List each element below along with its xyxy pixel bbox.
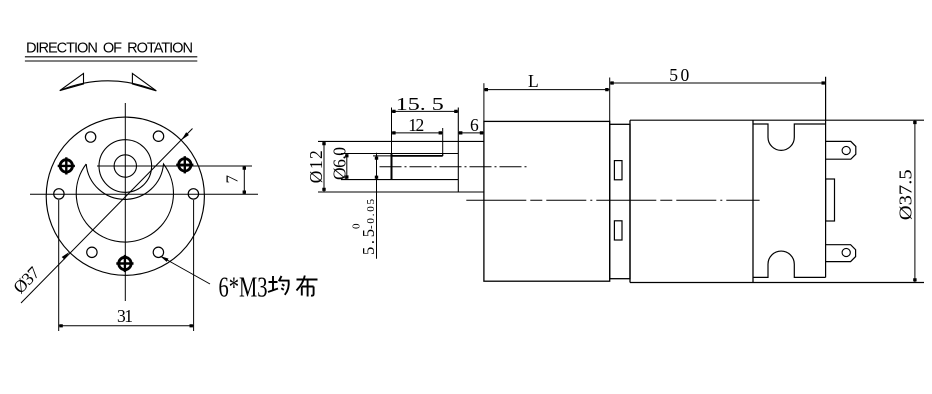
dim dia12 line xyxy=(323,141,325,192)
svg-text:-0.05: -0.05 xyxy=(365,199,377,230)
dim 5.5 text with tolerance xyxy=(351,199,379,256)
terminal tab lower xyxy=(826,245,856,262)
dim dia37.5 line xyxy=(914,120,916,282)
gearbox face extension up xyxy=(483,83,485,121)
dim L line xyxy=(484,89,609,91)
gearbox body xyxy=(484,121,610,281)
shaft horizontal centerline xyxy=(97,165,252,167)
dim 15.5 text xyxy=(396,94,444,114)
dia37 arrow upper xyxy=(181,132,189,140)
label bu (CJK) xyxy=(297,276,318,297)
terminal hole upper xyxy=(842,146,850,154)
shaft bottom edge with extension xyxy=(341,179,458,181)
shaft axis centerline xyxy=(380,166,529,168)
dim 6 text xyxy=(470,115,479,135)
dim 6 arrows xyxy=(459,131,483,134)
dim 31 line xyxy=(59,325,194,327)
terminal hole lower xyxy=(842,248,850,256)
dim L arrows xyxy=(485,88,609,91)
dim 12 extension right xyxy=(442,128,444,156)
svg-text:5.5: 5.5 xyxy=(359,229,378,255)
dim 50 line xyxy=(610,82,826,84)
svg-text:31: 31 xyxy=(117,306,133,326)
hole M3 mid-left xyxy=(54,189,64,199)
vertical centerline xyxy=(124,103,126,301)
shaft boss circle xyxy=(99,140,152,193)
svg-text:Ø37.5: Ø37.5 xyxy=(896,169,916,220)
dim dia12 arrows xyxy=(322,142,325,191)
dia37 leader line xyxy=(21,129,193,304)
shaft tip edge xyxy=(391,154,393,180)
end bell top edge with notch xyxy=(753,124,826,150)
screw cross hole bottom xyxy=(116,255,133,272)
hole M3 top-left xyxy=(85,132,95,142)
dim 5.5 arrows xyxy=(375,157,378,179)
dim 15.5 extension left xyxy=(391,108,393,154)
dim dia37.5 arrows xyxy=(913,121,916,282)
shaft top edge with extension xyxy=(341,153,458,155)
dim dia6.0 text xyxy=(329,147,349,180)
dim 15.5 line xyxy=(392,110,459,112)
motor can front edge xyxy=(629,120,631,282)
dim L text xyxy=(528,71,539,91)
dim 6 line xyxy=(458,132,484,134)
dia37 arrow lower xyxy=(62,252,70,260)
screw cross hole left xyxy=(58,157,75,174)
dim 15.5 arrows xyxy=(392,110,457,113)
svg-text:7: 7 xyxy=(223,175,242,184)
label 6*M3 xyxy=(219,272,268,304)
terminal tab upper xyxy=(826,141,856,159)
boss left edge and dim extension xyxy=(457,108,459,193)
motor axis centerline xyxy=(466,199,759,201)
title DIRECTION OF ROTATION xyxy=(26,41,193,57)
boss bottom edge with dim12 extension xyxy=(318,191,484,193)
dim 7 arrows xyxy=(243,167,246,194)
plate extension up xyxy=(609,78,611,125)
shaft circle xyxy=(114,155,136,177)
svg-text:12: 12 xyxy=(408,115,424,135)
dim 31 text xyxy=(117,306,133,326)
motor can top edge with dia37.5 extension xyxy=(630,119,924,121)
label jun (CJK) xyxy=(268,276,289,295)
brush cap rectangle xyxy=(826,179,835,221)
front view outer circle xyxy=(46,117,204,275)
dim 50 text xyxy=(669,65,689,85)
dim dia6.0 arrows xyxy=(345,154,348,178)
svg-text:15. 5: 15. 5 xyxy=(396,94,444,114)
dim 31 extension left xyxy=(58,200,60,331)
dim dia6.0 line xyxy=(346,154,348,180)
boss top edge with dim12 extension xyxy=(318,140,484,142)
screw cross hole right xyxy=(176,156,193,173)
shaft flat step xyxy=(442,154,444,156)
leader 6*M3 arrow xyxy=(160,256,169,262)
svg-text:Ø37: Ø37 xyxy=(9,262,44,297)
dim 31 extension right xyxy=(193,200,195,331)
leader 6*M3 line xyxy=(161,257,210,285)
rotation arrow arc xyxy=(60,81,157,91)
dim 12 arrows xyxy=(392,131,442,134)
end face line and 50-dim extension xyxy=(825,77,827,278)
dim dia37.5 text xyxy=(896,169,916,220)
end bell bottom edge with notch xyxy=(753,251,826,277)
dim dia12 text xyxy=(306,150,326,183)
dim 12 text xyxy=(408,115,424,135)
svg-text:Ø12: Ø12 xyxy=(306,150,326,183)
hole M3 mid-right xyxy=(188,189,198,199)
vent slot lower xyxy=(614,221,622,240)
dia37 label xyxy=(9,262,44,297)
svg-text:0: 0 xyxy=(351,223,363,229)
rotation arrow left head xyxy=(60,73,84,90)
crescent gearbox face xyxy=(76,164,173,242)
motor can rear edge xyxy=(752,120,754,282)
hole M3 bottom-right xyxy=(153,247,163,257)
svg-text:L: L xyxy=(528,71,539,91)
rotation arrow right head xyxy=(132,73,156,90)
dim 50 arrows xyxy=(610,81,825,84)
dim 31 arrows xyxy=(59,324,193,327)
dim 7 text xyxy=(223,175,242,184)
holes horizontal centerline xyxy=(30,193,258,195)
dim 12 line xyxy=(392,132,443,134)
hole M3 bottom-left xyxy=(87,247,97,257)
dim 5.5 line xyxy=(376,153,378,259)
motor front plate xyxy=(610,124,630,278)
svg-text:Ø6.0: Ø6.0 xyxy=(329,147,349,180)
svg-text:50: 50 xyxy=(669,65,689,85)
title double underline xyxy=(25,57,197,61)
svg-text:6: 6 xyxy=(470,115,479,135)
hole M3 top-right xyxy=(153,131,163,141)
shaft flat line xyxy=(392,155,443,157)
vent slot upper xyxy=(614,161,622,180)
shaft flat extension xyxy=(373,155,392,157)
dim 7 line xyxy=(243,166,245,194)
svg-text:6*M3: 6*M3 xyxy=(219,272,268,304)
motor can bottom edge with dia37.5 extension xyxy=(630,282,924,284)
svg-text:DIRECTION OF ROTATION: DIRECTION OF ROTATION xyxy=(26,41,193,57)
